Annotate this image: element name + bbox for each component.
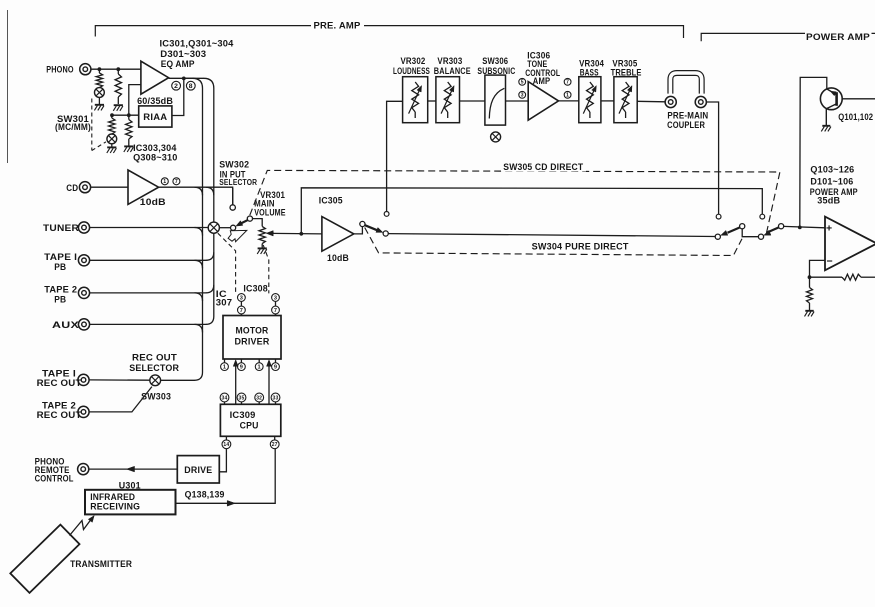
svg-text:IC305: IC305: [319, 195, 343, 206]
resistor feedback to ground: [809, 277, 811, 287]
potentiometer VR305 box: [614, 77, 637, 123]
wire CD amp output to SW302 contact corner: [159, 187, 233, 205]
wiper arrow VR301: [271, 232, 275, 234]
jack PHONO REMOTE CONTROL: [78, 464, 89, 475]
op-amp IC305 flat amp: [322, 217, 354, 252]
svg-text:Q138,139: Q138,139: [185, 489, 225, 500]
jack pre-main coupler right: [695, 96, 706, 107]
op-amp EQ AMP IC301: [141, 61, 169, 94]
wire IC306 to VR304: [559, 100, 579, 102]
transistor Q101,102 muting: [820, 88, 842, 110]
branch arc TAPE2 to listen bus: [206, 285, 214, 293]
potentiometer VR304 box: [579, 77, 601, 123]
jack pre-main coupler left: [665, 96, 676, 107]
node EQ output junction: [182, 77, 186, 81]
wire IC305 output jog to SW304 pivot: [354, 227, 363, 234]
wire CD jack to amp: [91, 186, 128, 188]
svg-text:IC301,Q301~304: IC301,Q301~304: [160, 37, 235, 48]
jack TAPE 2 REC OUT: [78, 406, 89, 417]
svg-text:PB: PB: [54, 261, 66, 272]
resistor phono load 2: [117, 69, 119, 74]
svg-text:7: 7: [566, 80, 569, 86]
svg-text:8: 8: [189, 83, 193, 90]
potentiometer VR302 box: [403, 77, 428, 123]
node feedback junction: [808, 275, 812, 279]
pin 3 left of motor driver: [238, 294, 246, 302]
wire CD-direct feed riser and line: [301, 188, 762, 234]
svg-text:9: 9: [240, 365, 243, 371]
wire SW302 CD contact drop: [232, 188, 234, 205]
wire EQ amp output: [169, 77, 194, 79]
jack TAPE 1 REC OUT: [78, 374, 89, 385]
switch contact SW304 left throw: [383, 231, 388, 236]
svg-text:MOTOR: MOTOR: [236, 326, 269, 336]
wire SW302 pivot to volume: [252, 219, 262, 227]
block RIAA: [139, 106, 172, 127]
switch SW302 rotary wafer (crossed circle): [208, 222, 219, 233]
svg-text:BALANCE: BALANCE: [434, 65, 471, 76]
pin 1 below motor driver left: [221, 363, 229, 371]
svg-text:DRIVER: DRIVER: [235, 337, 270, 347]
wire EQ output feedback tap to RIAA: [172, 78, 184, 115]
svg-text:Q308~310: Q308~310: [133, 152, 178, 163]
filter SW306 subsonic box: [485, 75, 506, 125]
coupler jumper bar: [670, 73, 701, 94]
jack CD input: [79, 182, 90, 193]
wire SW303 to rec bus: [161, 379, 195, 381]
switch contact SW301 lower (crossed circle): [107, 134, 117, 144]
resistor feedback network right: [128, 115, 130, 119]
svg-text:IC309: IC309: [230, 410, 256, 420]
branch arc CD to listen bus: [206, 187, 214, 195]
dashed link volume motor to IC308: [263, 245, 269, 293]
op-amp power amplifier: [825, 217, 875, 271]
block IC309 CPU: [220, 404, 280, 436]
wire INFRARED to IC309 pin27 with arrow: [176, 449, 276, 504]
node feedback left end: [110, 113, 114, 117]
wire TAPE1 REC OUT to SW303: [89, 379, 150, 381]
wire IC309 pin14 to DRIVE: [219, 449, 226, 472]
svg-text:(MC/MM): (MC/MM): [55, 122, 91, 132]
svg-text:DRIVE: DRIVE: [184, 465, 212, 475]
svg-text:1: 1: [223, 365, 226, 371]
svg-text:−: −: [827, 255, 833, 267]
jack TUNER input: [78, 222, 89, 233]
svg-text:TUNER: TUNER: [43, 222, 79, 233]
page border left edge: [7, 10, 9, 163]
svg-text:3: 3: [274, 296, 277, 302]
node power amp input junction: [798, 226, 802, 230]
svg-text:PRE-MAIN: PRE-MAIN: [667, 111, 708, 121]
wire listen bus vertical upper: [204, 78, 214, 222]
svg-text:35dB: 35dB: [817, 195, 840, 206]
jack TAPE 2 PB input: [78, 287, 89, 298]
svg-text:10dB: 10dB: [327, 252, 349, 263]
wire Q101 collector to ground: [825, 109, 827, 125]
svg-text:7: 7: [240, 308, 243, 314]
pin 8 of EQ amp: [186, 81, 195, 90]
svg-text:1: 1: [258, 365, 261, 371]
wire chain input from SW304 contact: [387, 101, 403, 211]
node CD-direct tap on volume line: [299, 232, 303, 236]
wire main line to power amp section: [388, 234, 715, 237]
svg-text:9: 9: [274, 365, 277, 371]
wire TAPE2 REC OUT to SW303: [89, 387, 152, 412]
jack TAPE 1 PB input: [78, 255, 89, 266]
ground under Q101: [822, 125, 830, 127]
svg-text:7: 7: [175, 179, 178, 185]
pin 7 left of motor driver: [238, 306, 246, 314]
svg-text:RIAA: RIAA: [143, 112, 167, 122]
svg-text:PHONO: PHONO: [46, 64, 74, 75]
svg-text:1: 1: [163, 179, 166, 185]
pin stubs below motor driver: [224, 359, 226, 363]
node phono junction A: [98, 67, 102, 71]
wire feedback riser to EQ amp inverting input: [129, 85, 141, 116]
svg-text:SELECTOR: SELECTOR: [129, 362, 179, 373]
wire pin7 stubs to motor driver: [240, 314, 242, 316]
wire SW306 to IC306: [506, 100, 529, 102]
ground under VR301: [261, 244, 263, 248]
POWER AMP section bracket: [701, 33, 875, 41]
svg-text:27: 27: [272, 442, 278, 448]
switch contact SW304 right end of main line: [715, 234, 720, 239]
pin stubs above IC309: [224, 402, 226, 404]
svg-text:VOLUME: VOLUME: [254, 206, 286, 217]
wire Q101 base to edge: [842, 98, 875, 100]
wire VR303 to SW306: [460, 100, 485, 102]
svg-text:LOUDNESS: LOUDNESS: [393, 65, 430, 76]
wire listen bus vertical lower: [206, 233, 214, 324]
switch pivot SW302: [247, 216, 252, 221]
svg-text:EQ AMP: EQ AMP: [161, 58, 195, 69]
pin 3 right of motor driver: [272, 294, 280, 302]
ground under SW301 lower contact: [111, 144, 113, 147]
svg-text:+: +: [826, 223, 832, 235]
wire volume wiper to IC305: [273, 232, 322, 235]
pin 34 of IC309: [220, 393, 229, 402]
pin 7 of CD buffer: [173, 178, 180, 185]
svg-text:2: 2: [174, 83, 178, 90]
ground under SW301 upper contact: [98, 97, 100, 104]
switch contact mid B: [758, 234, 763, 239]
dashed link selector to IC307: [218, 233, 236, 293]
wire TAPE2 PB to buses: [90, 292, 207, 294]
op-amp CD buffer IC: [128, 170, 159, 204]
switch arm SW304 right1: [728, 227, 740, 232]
wire motor drive line left with up arrow: [235, 362, 237, 405]
svg-text:POWER AMP: POWER AMP: [806, 31, 870, 42]
switch pivot SW305 right2: [779, 224, 784, 229]
switch pivot SW304 right1: [740, 224, 745, 229]
dashed gang link SW301: [91, 99, 93, 151]
ground under feedback resistor: [124, 145, 133, 147]
svg-text:SW305 CD DIRECT: SW305 CD DIRECT: [503, 161, 583, 172]
branch arc TAPE1 to listen bus: [206, 252, 214, 260]
switch SW303 (crossed circle): [150, 375, 161, 386]
remote-drive hollow arrow indicator: [228, 230, 247, 241]
pin 33 of IC309: [271, 393, 280, 402]
switch arm SW304 left: [365, 225, 377, 230]
block DRIVE: [177, 456, 219, 483]
pin 32 of IC309: [255, 393, 264, 402]
svg-text:5: 5: [521, 80, 524, 86]
svg-text:14: 14: [223, 442, 229, 448]
switch indicator below SW306 (crossed circle): [491, 132, 501, 142]
pin 7 right of motor driver: [272, 306, 280, 314]
svg-text:Q103~126: Q103~126: [810, 164, 854, 175]
switch arm SW305 right2: [767, 227, 779, 232]
svg-text:32: 32: [256, 395, 262, 401]
pin 7 of IC306: [564, 78, 571, 85]
transmitter body (rotated): [10, 525, 79, 593]
jack PHONO input: [80, 64, 91, 75]
svg-text:Q101,102: Q101,102: [838, 111, 873, 122]
pin 5 of IC306: [519, 78, 526, 85]
pin 1 of IC306: [564, 91, 571, 98]
ground under resistor phono load 2: [114, 104, 123, 106]
potentiometer VR303 box: [436, 77, 460, 123]
svg-text:35: 35: [239, 395, 245, 401]
wire VR304 to VR305: [601, 100, 614, 102]
pin 9 below motor driver left: [238, 363, 246, 371]
wire coupler right to SW304 upper contact: [706, 102, 718, 214]
svg-text:CD: CD: [66, 182, 78, 193]
switch contact SW301 upper (crossed circle): [95, 88, 105, 98]
PRE. AMP section bracket: [95, 26, 683, 38]
switch contact SW304 tone side: [384, 212, 389, 217]
pin 3 of IC306: [519, 91, 526, 98]
pin 1 below motor driver right: [255, 363, 263, 371]
wire rec-out bus vertical: [193, 78, 203, 380]
pin stubs below IC309: [225, 436, 227, 440]
dashed SW305 CD DIRECT line: [250, 170, 780, 234]
svg-text:INFRARED: INFRARED: [90, 492, 135, 502]
wire VR302 to VR303: [428, 100, 436, 102]
svg-text:REC OUT: REC OUT: [37, 377, 82, 388]
wire TUNER to selector: [90, 227, 209, 229]
wire RIAA left to feedback node: [112, 114, 139, 116]
ground under feedback divider: [805, 310, 813, 312]
svg-text:33: 33: [273, 395, 279, 401]
svg-text:U301: U301: [119, 479, 141, 490]
svg-text:REC OUT: REC OUT: [132, 352, 177, 363]
block MOTOR DRIVER: [223, 316, 281, 360]
switch contact SW302 arm throw: [231, 225, 236, 230]
wire motor drive line right with up arrow: [268, 362, 270, 405]
svg-text:34: 34: [222, 395, 228, 401]
resistor phono load 1: [98, 69, 100, 73]
svg-text:3: 3: [521, 93, 524, 99]
wire TAPE1 PB to buses: [90, 259, 207, 261]
wire EQ output into buses: [184, 77, 204, 79]
wire muting feed vertical: [800, 77, 827, 227]
wire selector to arm contact: [219, 227, 230, 229]
pin 9 below motor driver right: [272, 363, 280, 371]
svg-text:TRANSMITTER: TRANSMITTER: [70, 558, 132, 569]
label SW305 CD DIRECT: [501, 161, 586, 172]
svg-text:AMP: AMP: [533, 75, 551, 86]
svg-text:SELECTOR: SELECTOR: [219, 177, 257, 187]
svg-text:REC OUT: REC OUT: [37, 409, 82, 420]
switch contact SW304 from coupler: [716, 214, 721, 219]
svg-text:7: 7: [274, 308, 277, 314]
wire SW305 pivot2 to power amp input: [784, 226, 825, 227]
jack AUX input: [78, 319, 89, 330]
svg-text:PRE. AMP: PRE. AMP: [314, 20, 361, 31]
svg-text:SW303: SW303: [141, 391, 171, 402]
svg-text:PB: PB: [54, 293, 66, 304]
resistor feedback network left: [111, 115, 113, 118]
svg-text:10dB: 10dB: [140, 196, 166, 207]
svg-text:CONTROL: CONTROL: [35, 473, 74, 483]
branch arc TAPE1 to rec bus: [195, 260, 203, 268]
wire SW304 pivot1 to contact B: [742, 229, 758, 237]
node phono junction B: [116, 67, 120, 71]
pin 1 of CD buffer: [161, 178, 168, 185]
svg-text:RECEIVING: RECEIVING: [90, 502, 140, 512]
pin 14 of IC309: [222, 440, 231, 449]
svg-text:COUPLER: COUPLER: [667, 120, 705, 130]
branch arc TAPE2 to rec bus: [195, 293, 203, 301]
pin 35 of IC309: [237, 393, 246, 402]
branch arc AUX to rec bus: [195, 324, 203, 332]
wire feedback from minus input: [810, 260, 826, 277]
block INFRARED RECEIVING U301: [85, 490, 176, 515]
branch arc TUNER to rec bus: [195, 228, 203, 236]
resistor feedback horizontal: [810, 276, 843, 278]
svg-text:3: 3: [240, 296, 243, 302]
svg-text:CPU: CPU: [240, 421, 259, 431]
switch pivot SW304 left: [360, 221, 365, 226]
wire AUX to buses: [90, 323, 207, 325]
pin 27 of IC309: [270, 440, 279, 449]
node RIAA feedback tee: [127, 113, 131, 117]
branch arc CD to rec bus: [195, 187, 203, 195]
svg-text:60/35dB: 60/35dB: [137, 95, 173, 106]
op-amp IC306 tone control: [528, 82, 558, 121]
switch contact SW305 upper right: [760, 214, 765, 219]
wire phono input to EQ amp: [91, 68, 141, 70]
switch contact SW302 CD-direct: [230, 205, 235, 210]
svg-text:1: 1: [566, 93, 569, 99]
wire DRIVE to phono remote jack with arrow: [89, 468, 178, 470]
svg-text:IC308: IC308: [243, 282, 268, 293]
svg-text:307: 307: [216, 298, 233, 308]
pin 2 of EQ amp: [172, 81, 181, 90]
svg-text:SW304 PURE DIRECT: SW304 PURE DIRECT: [532, 241, 629, 252]
wire VR305 to coupler: [637, 100, 665, 103]
potentiometer VR301: [259, 226, 265, 243]
dashed SW304 PURE DIRECT line: [365, 228, 742, 256]
infrared beam zigzag arrow: [70, 519, 92, 536]
svg-text:AUX: AUX: [52, 319, 80, 330]
switch arm SW302: [240, 220, 248, 224]
